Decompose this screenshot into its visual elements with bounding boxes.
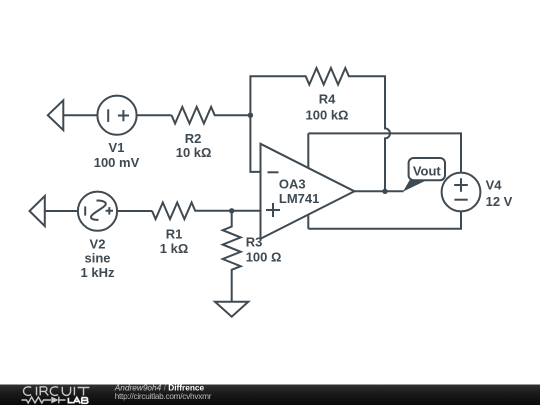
svg-text:V1: V1 (109, 140, 125, 155)
svg-text:10 kΩ: 10 kΩ (176, 145, 212, 160)
svg-text:R3: R3 (246, 235, 263, 250)
svg-text:100 kΩ: 100 kΩ (306, 107, 349, 122)
svg-text:http://circuitlab.com/cvhvxmr: http://circuitlab.com/cvhvxmr (115, 391, 212, 401)
svg-text:R2: R2 (185, 131, 202, 146)
svg-text:Vout: Vout (413, 164, 442, 179)
svg-text:OA3: OA3 (279, 176, 306, 191)
svg-text:R4: R4 (319, 92, 336, 107)
svg-text:LM741: LM741 (279, 191, 319, 206)
svg-text:R1: R1 (166, 227, 183, 242)
svg-text:sine: sine (84, 250, 110, 265)
svg-text:V2: V2 (90, 236, 106, 251)
svg-text:100 Ω: 100 Ω (246, 250, 282, 265)
svg-text:12 V: 12 V (486, 194, 513, 209)
svg-text:V4: V4 (486, 178, 503, 193)
svg-text:100 mV: 100 mV (94, 155, 140, 170)
svg-text:1 kHz: 1 kHz (81, 265, 115, 280)
svg-text:1 kΩ: 1 kΩ (160, 241, 189, 256)
